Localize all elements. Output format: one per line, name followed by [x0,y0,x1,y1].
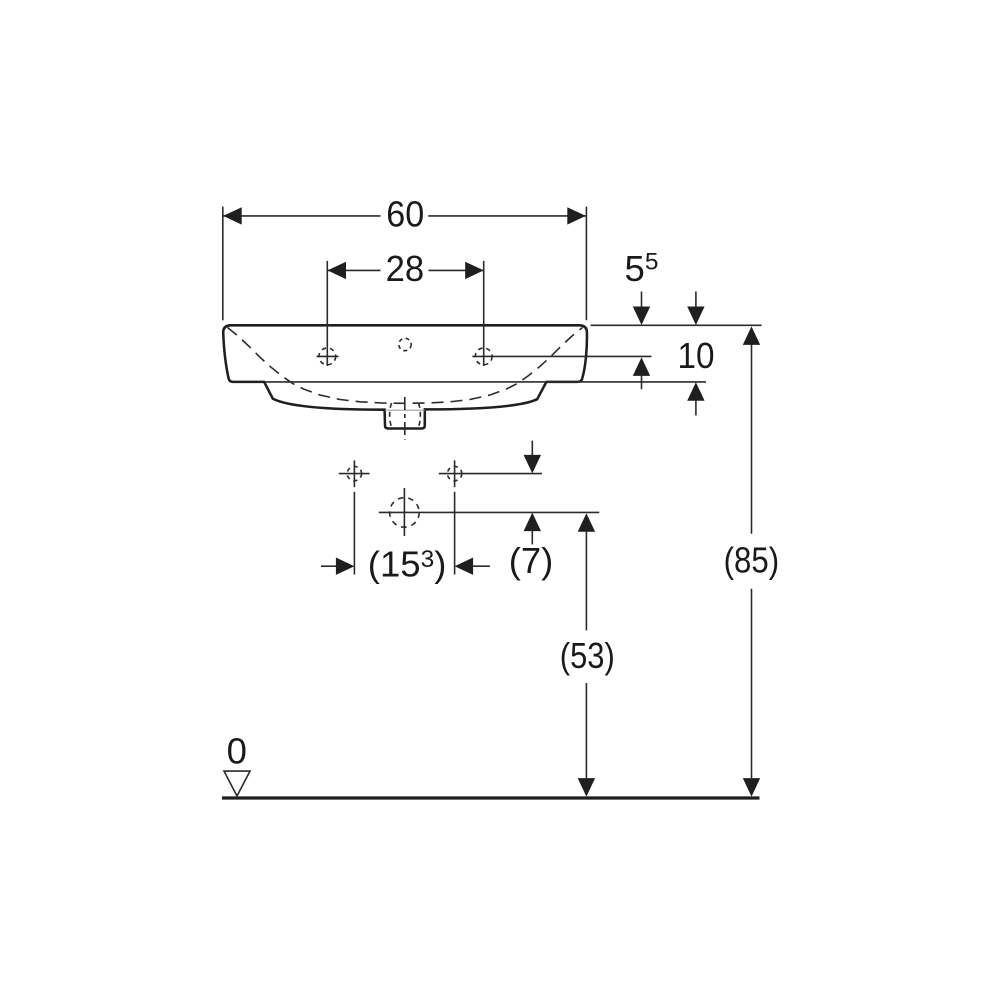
dimension 85: line upper segment [751,344,753,533]
svg-text:10: 10 [678,335,715,376]
dimension 60: left extension line [222,207,224,321]
dimension 60: line left segment [223,215,380,217]
basin bowl dashed curve [228,328,583,404]
dimension 10: lower arrow tail [695,400,697,415]
dimension 85: lower arrow [743,778,760,797]
dimension 10: upper arrow tail [695,292,697,308]
dimension 53: line lower segment [585,683,587,778]
drain hole dashed arc right [419,403,421,427]
dimension 7: upper arrow [524,455,541,474]
dimension 28: right arrow [465,262,484,279]
washbasin outline [223,325,587,428]
fixing hole right cross with reference line to dim 7 [439,460,542,487]
dimension 5.5: upper arrow tail [641,292,643,308]
dimension 7: upper arrow tail [531,441,533,456]
dimension 15.3: right arrow tail [473,565,490,567]
dimension 60: line right segment [428,215,586,217]
fixing hole left cross [339,460,370,487]
dimension 28: right extension line [483,261,485,366]
siphon outlet vertical centerline [403,488,405,536]
dimension 10: upper arrow [687,307,704,326]
svg-text:(53): (53) [560,635,615,676]
dimension 53: line upper segment [585,531,587,630]
dimension 10: lower arrow [687,382,704,401]
svg-text:(153): (153) [368,544,447,585]
drain faint inner edge [385,409,425,411]
drain centerline [404,397,406,440]
datum triangle [224,771,250,796]
dimension 85: upper arrow [743,326,760,345]
dimension 60: right arrow [567,207,586,224]
tap hole left cross [317,348,339,365]
siphon outlet dashed circle [390,498,420,528]
dimension 28: line right segment [429,269,484,271]
svg-text:0: 0 [227,731,247,772]
dimension 85: line lower segment [751,589,753,779]
svg-text:(7): (7) [509,540,554,581]
dimension 15.3: right arrow [455,558,474,575]
dimension 28: left arrow [328,262,347,279]
dimension 15.3: left extension line [353,492,355,575]
svg-text:60: 60 [386,194,424,235]
dimension 7: lower arrow [524,513,541,532]
siphon outlet horizontal reference line to dims 7 and 53 [379,511,600,513]
dimension 60: left arrow [223,207,242,224]
dimension 5.5: lower arrow tail [641,375,643,389]
dimension 15.3: left arrow [336,558,355,575]
overflow hole dashed circle [399,338,411,350]
dimension 28: left extension line [326,261,328,366]
svg-text:28: 28 [386,248,425,289]
tap hole right cross with reference line to dim 5.5 [472,348,651,365]
dimension 5.5: upper arrow [633,307,650,326]
dimension 7: lower arrow tail [531,531,533,545]
dimension 53: lower arrow [578,778,595,797]
dimension 15.3: left arrow tail [321,565,337,567]
dimension 53: upper arrow [578,513,595,532]
drain hole dashed arc left [390,403,392,427]
dimension 15.3: right extension line [454,492,456,575]
floor baseline [222,796,760,799]
rim lower edge line across basin and extension for dim 10 [264,381,706,383]
dimension 28: line left segment [328,269,381,271]
top edge reference line to dims 5.5 and 85 [591,324,762,326]
svg-text:(85): (85) [724,540,780,581]
dimension 5.5: lower arrow [633,357,650,376]
dimension 60: right extension line [585,207,587,321]
